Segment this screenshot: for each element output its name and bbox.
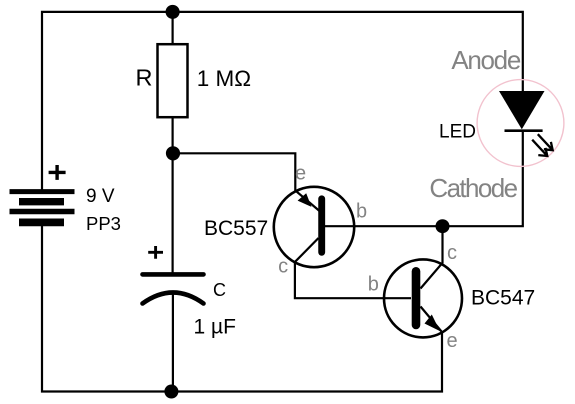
svg-text:R: R [136,64,153,90]
svg-text:e: e [446,330,457,352]
LED D1 cathode bar [505,129,543,132]
svg-text:c: c [278,256,288,278]
LED D1 emission arrow 2 [532,140,547,156]
transistor Q1 BC557 emitter arrowhead [298,193,312,207]
LED D1 emission arrow 1 [538,134,553,150]
svg-text:c: c [447,242,457,264]
wire node to BC557 emitter [173,153,320,211]
LED D1 highlight circle [477,80,564,167]
svg-text:LED: LED [439,122,476,143]
svg-text:b: b [368,274,379,296]
svg-text:e: e [295,162,306,184]
svg-text:BC557: BC557 [204,217,268,240]
wire resistor top lead [172,12,174,44]
wire capacitor bottom lead [172,293,174,392]
wire BC557 collector to BC547 base [295,238,411,298]
node D junction dot on base wire [436,219,450,233]
battery BT1 plate 3 long [10,209,75,215]
transistor Q1 BC557 circle [274,187,354,267]
battery BT1 plate 1 long [10,189,75,194]
node A junction dot top [166,5,180,19]
svg-text:Cathode: Cathode [429,173,517,203]
svg-text:9 V: 9 V [86,186,115,207]
svg-text:1 MΩ: 1 MΩ [197,66,251,91]
capacitor C1 curved plate [143,293,204,304]
transistor Q2 BC547 emitter wire [421,307,442,332]
battery BT1 plus sign [49,165,66,180]
wire junction riser to BC547 collector [421,226,443,288]
capacitor C1 plus sign [148,246,163,259]
resistor R1 body [158,44,188,117]
transistor Q2 BC547 circle [384,259,462,337]
wire resistor bottom lead to capacitor top plate [172,117,174,273]
node C junction dot bottom [164,385,178,399]
svg-text:BC547: BC547 [471,287,535,310]
svg-text:C: C [213,280,226,300]
battery BT1 plate 2 short [19,198,64,205]
wire BC557 base to right wire (through junction) [325,130,523,226]
wire outer top loop (left wire, top wire, right wire to LED anode) [42,12,523,193]
svg-text:PP3: PP3 [86,213,121,234]
svg-text:1 µF: 1 µF [194,316,236,339]
wire bottom loop (left wire below battery, bottom wire, BC547 emitter riser) [42,221,442,392]
battery BT1 plate 4 short [19,218,64,226]
svg-text:Anode: Anode [451,45,521,75]
node B junction dot below resistor [166,146,180,160]
transistor Q2 BC547 base bar [412,271,421,325]
svg-text:b: b [356,200,367,222]
transistor Q2 BC547 emitter arrowhead [425,315,440,332]
LED D1 triangle [499,91,545,129]
transistor Q1 BC557 base bar [318,199,325,253]
capacitor C1 top plate [143,272,204,277]
